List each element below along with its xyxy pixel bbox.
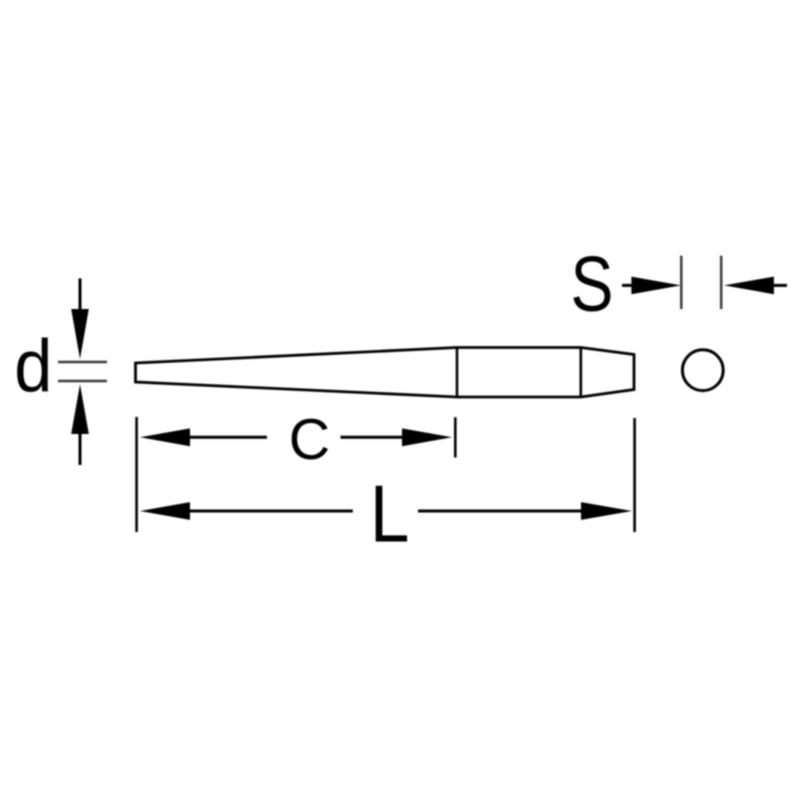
svg-text:S: S bbox=[571, 241, 614, 328]
svg-text:d: d bbox=[14, 325, 52, 408]
svg-text:C: C bbox=[289, 408, 330, 472]
svg-text:L: L bbox=[370, 469, 410, 559]
